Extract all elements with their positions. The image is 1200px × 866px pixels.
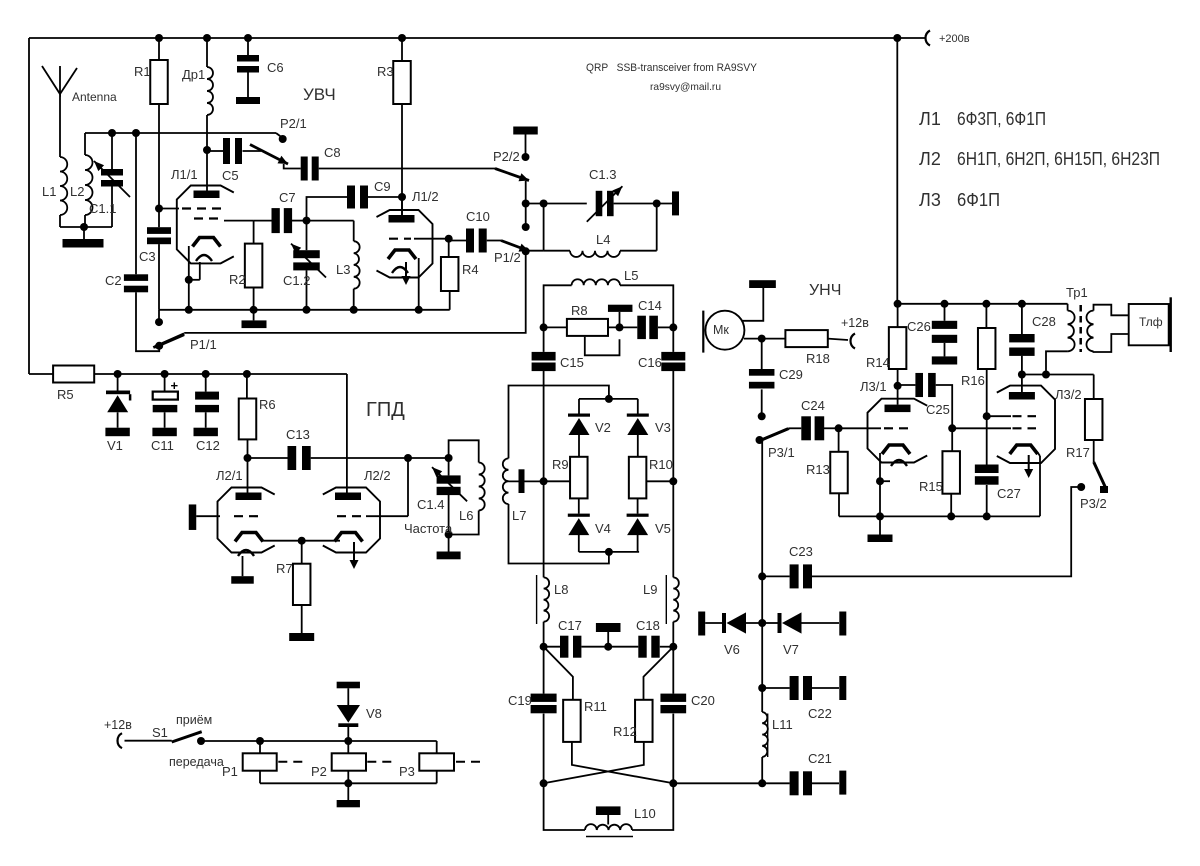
svg-text:L6: L6	[459, 508, 473, 523]
svg-text:Л3/1: Л3/1	[860, 379, 887, 394]
ground Mk	[749, 280, 776, 288]
relay coil P1	[259, 741, 261, 753]
tube U L1/2 envelope	[377, 210, 433, 278]
capacitor C9	[347, 186, 355, 209]
relay contact P2/2	[525, 135, 527, 158]
svg-text:R6: R6	[259, 397, 276, 412]
inductor L8	[543, 481, 545, 577]
inductor L5	[544, 285, 572, 327]
svg-text:V5: V5	[655, 521, 671, 536]
resistor R9	[570, 457, 588, 499]
relay contact P3/1	[756, 436, 764, 444]
diode V4	[578, 498, 580, 513]
wire Mk to R18	[744, 338, 786, 340]
svg-text:P1: P1	[222, 764, 238, 779]
node filter right	[669, 323, 677, 331]
wire relay return	[260, 782, 437, 784]
anode L3/2	[1009, 392, 1035, 400]
svg-text:C19: C19	[508, 693, 532, 708]
svg-text:R15: R15	[919, 479, 943, 494]
svg-text:P3: P3	[399, 764, 415, 779]
svg-text:R2: R2	[229, 272, 246, 287]
capacitor C17	[544, 646, 560, 648]
svg-text:V6: V6	[724, 642, 740, 657]
svg-text:ГПД: ГПД	[366, 399, 405, 421]
svg-text:C29: C29	[779, 367, 803, 382]
svg-text:V3: V3	[655, 420, 671, 435]
svg-text:S1: S1	[152, 725, 168, 740]
wire carrier right	[647, 480, 674, 482]
grid L2/1	[234, 515, 261, 517]
wire diode top rail	[579, 398, 638, 400]
svg-text:C2: C2	[105, 273, 122, 288]
svg-text:L2: L2	[70, 184, 84, 199]
tube U L3/1 envelope	[868, 399, 928, 463]
relay contact P3/2	[1094, 462, 1106, 488]
capacitor C7	[254, 220, 272, 222]
core L9	[665, 575, 667, 624]
wire anode node	[1022, 374, 1094, 376]
ground L10	[596, 806, 621, 815]
resistor R13	[838, 428, 840, 452]
ground C1.4	[448, 535, 450, 552]
svg-text:R3: R3	[377, 64, 394, 79]
heater ground L2/1	[242, 556, 244, 576]
svg-text:P2: P2	[311, 764, 327, 779]
svg-text:Л1: Л1	[919, 109, 941, 129]
capacitor C14	[637, 316, 646, 339]
diode V8	[337, 682, 360, 689]
svg-text:C27: C27	[997, 486, 1021, 501]
relay contact P2/1	[279, 135, 287, 143]
core L8	[536, 575, 538, 624]
switch S1	[172, 732, 202, 742]
node C7-C9 junction	[303, 217, 311, 225]
wire det output	[673, 782, 762, 784]
wire tank top right	[614, 203, 672, 205]
wire left border	[28, 38, 30, 374]
tube U L3/2 envelope	[997, 386, 1055, 463]
svg-text:P1/2: P1/2	[494, 250, 521, 265]
resistor R11	[544, 647, 573, 700]
svg-text:C9: C9	[374, 179, 391, 194]
wire diode bottom rail	[579, 551, 639, 553]
svg-text:Частота: Частота	[404, 521, 453, 536]
svg-text:V2: V2	[595, 420, 611, 435]
transformer Tr1 primary	[1067, 304, 1069, 311]
svg-text:P3/2: P3/2	[1080, 496, 1107, 511]
svg-text:Мк: Мк	[713, 323, 729, 337]
capacitor C22	[762, 687, 789, 689]
capacitor C8	[301, 157, 308, 181]
wire C23 to P3/2	[812, 487, 1081, 576]
capacitor C28	[1021, 304, 1023, 334]
grid2 L1/1	[194, 217, 221, 219]
wire UVCh cathode rail	[159, 309, 450, 311]
wire tank top	[526, 203, 587, 205]
svg-text:+12в: +12в	[841, 316, 869, 330]
resistor R4	[448, 239, 450, 257]
resistor R17	[1093, 375, 1095, 400]
svg-text:C1.4: C1.4	[417, 497, 444, 512]
svg-text:C10: C10	[466, 209, 490, 224]
svg-text:C6: C6	[267, 60, 284, 75]
capacitor C5	[207, 150, 223, 152]
inductor L6	[449, 440, 479, 462]
ground C6	[236, 97, 260, 104]
svg-text:V4: V4	[595, 521, 611, 536]
capacitor C1.4	[448, 458, 450, 475]
diode V7	[762, 622, 777, 624]
node stub below C3	[158, 310, 160, 322]
resistor R8	[544, 326, 567, 328]
svg-text:R4: R4	[462, 262, 479, 277]
wire +200V drop to AF stage	[896, 38, 898, 304]
wire bus to anode L2/2	[346, 374, 348, 493]
svg-text:R13: R13	[806, 462, 830, 477]
inductor L10	[544, 783, 585, 830]
capacitor C27	[975, 465, 999, 474]
wire input tank ground	[60, 226, 112, 228]
resistor R14	[897, 304, 899, 327]
svg-text:P2/1: P2/1	[280, 116, 307, 131]
tube U L2/1 envelope	[218, 488, 275, 553]
svg-text:C13: C13	[286, 427, 310, 442]
svg-text:C8: C8	[324, 145, 341, 160]
svg-text:C17: C17	[558, 618, 582, 633]
inductor L3	[307, 220, 354, 222]
node top rail junctions	[155, 34, 163, 42]
svg-text:L8: L8	[554, 582, 568, 597]
svg-text:C16: C16	[638, 355, 662, 370]
terminal bar tank	[672, 191, 679, 215]
svg-text:Л2/2: Л2/2	[364, 468, 391, 483]
svg-text:R17: R17	[1066, 445, 1090, 460]
ground input tank	[83, 227, 85, 239]
cathode L1/2	[388, 250, 416, 259]
wire carrier left	[544, 480, 570, 482]
svg-text:P2/2: P2/2	[493, 149, 520, 164]
svg-text:C5: C5	[222, 168, 239, 183]
diode V2	[578, 399, 580, 414]
svg-text:R14: R14	[866, 355, 890, 370]
svg-text:L1: L1	[42, 184, 56, 199]
svg-text:C12: C12	[196, 438, 220, 453]
wire antenna bus	[85, 132, 276, 134]
capacitor C23	[762, 575, 789, 577]
wire VFO supply bus	[94, 373, 347, 375]
svg-text:Л2: Л2	[919, 149, 941, 169]
capacitor C16	[672, 327, 674, 352]
svg-text:Л2/1: Л2/1	[216, 468, 243, 483]
capacitor C3	[147, 227, 171, 234]
svg-text:V8: V8	[366, 706, 382, 721]
relay coil P2	[347, 741, 349, 753]
node filter mid	[604, 643, 612, 651]
phones Tlf	[1129, 304, 1169, 345]
wire cathode link	[263, 540, 341, 542]
capacitor C10	[449, 240, 466, 242]
heater arrow L2/2	[353, 542, 355, 567]
svg-text:R7: R7	[276, 561, 293, 576]
diode V3	[637, 399, 639, 414]
wire P2/2 column	[525, 181, 527, 227]
resistor R2	[253, 221, 255, 244]
svg-text:P1/1: P1/1	[190, 337, 217, 352]
node C17 left	[540, 643, 548, 651]
resistor R10	[629, 457, 647, 499]
core L7	[519, 469, 525, 493]
capacitor C11	[164, 374, 166, 392]
capacitor C6	[247, 38, 249, 55]
terminal +12v AF	[851, 334, 856, 349]
tube U L2/2 envelope	[323, 488, 380, 553]
wire grid1 L3/2	[987, 415, 1011, 417]
terminal bar C22	[839, 676, 846, 700]
svg-text:Л3: Л3	[919, 190, 941, 210]
wire carrier injection	[509, 504, 609, 564]
svg-text:R8: R8	[571, 303, 588, 318]
node carrier left	[540, 477, 548, 485]
cathode L3/2	[1010, 445, 1038, 454]
capacitor C13	[248, 457, 288, 459]
transformer Tr1 core	[1079, 305, 1082, 352]
svg-text:6Ф3П, 6Ф1П: 6Ф3П, 6Ф1П	[957, 109, 1046, 129]
anode L1/2	[389, 215, 415, 223]
svg-text:Тр1: Тр1	[1066, 285, 1088, 300]
grid1 L1/1	[159, 208, 179, 210]
wire R3 to anode	[401, 104, 403, 215]
cathode L1/1	[193, 238, 221, 247]
inductor L1	[60, 157, 67, 215]
wire C9 branch	[307, 197, 348, 221]
svg-text:+12в: +12в	[104, 718, 132, 732]
core L10	[586, 836, 633, 838]
capacitor C1.1	[111, 133, 113, 169]
svg-text:R10: R10	[649, 457, 673, 472]
heater arrow L3/2	[1028, 455, 1030, 476]
wire C8 to P2/2	[319, 168, 495, 170]
svg-text:V1: V1	[107, 438, 123, 453]
svg-text:C20: C20	[691, 693, 715, 708]
grid L3/1	[839, 427, 881, 429]
capacitor C18	[608, 646, 638, 648]
capacitor C15	[543, 327, 545, 352]
choke Dr1	[206, 38, 208, 67]
svg-text:R1: R1	[134, 64, 151, 79]
resistor R6	[246, 374, 248, 399]
svg-text:Л3/2: Л3/2	[1055, 387, 1082, 402]
svg-text:L7: L7	[512, 508, 526, 523]
inductor L7	[503, 458, 509, 504]
svg-text:C1.2: C1.2	[283, 273, 310, 288]
anode L1/1	[194, 191, 220, 199]
svg-text:УНЧ: УНЧ	[809, 282, 841, 299]
terminal bar V7	[839, 612, 846, 636]
ground cathode rail AF	[879, 516, 881, 534]
wire R1 to grid	[158, 104, 160, 227]
svg-text:R12: R12	[613, 724, 637, 739]
node C18 right	[669, 643, 677, 651]
anode L3/1	[885, 405, 911, 413]
svg-text:R18: R18	[806, 351, 830, 366]
grid L1/2	[389, 238, 411, 240]
svg-text:C7: C7	[279, 190, 296, 205]
wire relay bus	[201, 740, 437, 742]
inductor L11	[761, 757, 763, 783]
relay contact P1/2	[501, 241, 529, 252]
svg-text:Тлф: Тлф	[1139, 315, 1163, 329]
svg-text:L4: L4	[596, 232, 610, 247]
resistor R3	[401, 38, 403, 61]
wire +200V top rail	[29, 37, 925, 39]
svg-text:P3/1: P3/1	[768, 445, 795, 460]
svg-text:V7: V7	[783, 642, 799, 657]
capacitor C2	[135, 133, 137, 274]
wire grid2 L3/2	[952, 427, 1011, 429]
resistor R7	[301, 541, 303, 564]
svg-text:L5: L5	[624, 268, 638, 283]
svg-text:C18: C18	[636, 618, 660, 633]
cathode L2/2	[335, 533, 363, 542]
resistor R15	[951, 428, 953, 451]
wire C2 to P1/1	[136, 292, 159, 351]
svg-text:C24: C24	[801, 398, 825, 413]
node out right	[669, 779, 677, 787]
microphone Mk	[705, 311, 744, 350]
transformer Tr1 secondary	[1086, 311, 1093, 352]
svg-text:L3: L3	[336, 262, 350, 277]
node out left	[540, 779, 548, 787]
svg-text:Л1/2: Л1/2	[412, 189, 439, 204]
ground R8-C14	[608, 305, 633, 312]
wire +12v to S1	[125, 740, 172, 742]
node filter left	[540, 323, 548, 331]
wire C5 to P2/1	[243, 150, 262, 152]
capacitor C29	[761, 339, 763, 369]
svg-text:R5: R5	[57, 387, 74, 402]
ground UVCh rail	[253, 310, 255, 321]
terminal bar V6	[698, 612, 705, 636]
capacitor C1.2	[306, 221, 308, 251]
core L11	[767, 714, 769, 758]
svg-text:C28: C28	[1032, 314, 1056, 329]
terminal +200v	[926, 31, 931, 46]
wire AF supply rail	[897, 303, 1067, 305]
svg-text:C23: C23	[789, 544, 813, 559]
relay coil P3	[436, 741, 438, 753]
anode L2/2	[335, 493, 361, 501]
node R15 top	[948, 424, 956, 432]
ground P2/2	[513, 127, 538, 135]
svg-text:приём: приём	[176, 713, 212, 727]
terminal bar C21	[839, 771, 846, 795]
svg-text:C3: C3	[139, 249, 156, 264]
relay contact P1/1	[155, 342, 163, 350]
capacitor C20	[672, 647, 674, 694]
diode V5	[637, 498, 639, 513]
svg-text:УВЧ: УВЧ	[303, 85, 336, 104]
antenna	[42, 66, 60, 94]
svg-text:Л1/1: Л1/1	[171, 167, 198, 182]
diode V1 zener	[117, 374, 119, 391]
resistor R18	[785, 330, 827, 347]
capacitor C25	[898, 384, 916, 386]
svg-text:QRP SSB-transceiver from RA9: QRP SSB-transceiver from RA9SVY	[586, 62, 758, 74]
svg-text:C14: C14	[638, 298, 662, 313]
wire column to C23	[761, 576, 763, 623]
svg-text:ra9svy@mail.ru: ra9svy@mail.ru	[650, 81, 721, 93]
inductor L4	[543, 204, 545, 251]
svg-text:6Н1П, 6Н2П, 6Н15П, 6Н23П: 6Н1П, 6Н2П, 6Н15П, 6Н23П	[957, 149, 1160, 169]
wire BFO column	[761, 623, 763, 688]
inductor L9	[672, 481, 674, 577]
svg-text:L11: L11	[772, 717, 793, 732]
tube U L1/1 envelope	[177, 186, 234, 264]
svg-text:C1.3: C1.3	[589, 167, 616, 182]
terminal +12v	[118, 733, 122, 748]
svg-text:передача: передача	[169, 755, 224, 769]
svg-text:C11: C11	[151, 438, 174, 453]
wire P3/1 down	[761, 441, 763, 576]
wire P2/1 to C8	[284, 164, 301, 169]
wire cathode rail AF	[839, 515, 1040, 517]
wire mixer input	[509, 386, 609, 459]
svg-text:C15: C15	[560, 355, 584, 370]
svg-text:L10: L10	[634, 806, 656, 821]
capacitor C12	[205, 374, 207, 392]
svg-text:C21: C21	[808, 751, 832, 766]
anode L2/1	[236, 493, 262, 501]
svg-text:C1.1: C1.1	[89, 201, 116, 216]
capacitor C21	[762, 782, 789, 784]
capacitor C24	[789, 427, 801, 429]
svg-text:+200в: +200в	[939, 33, 970, 45]
capacitor C26	[944, 304, 946, 321]
grid L2/2	[337, 515, 361, 517]
cathode L3/1	[882, 445, 910, 454]
resistor R1	[158, 38, 160, 60]
node C22	[758, 684, 766, 692]
svg-text:R9: R9	[552, 457, 569, 472]
resistor R12	[644, 647, 674, 700]
capacitor C19	[543, 647, 545, 694]
svg-text:Antenna: Antenna	[72, 90, 117, 104]
cathode L2/1	[235, 533, 263, 542]
resistor R5	[29, 373, 53, 375]
svg-text:C25: C25	[926, 402, 950, 417]
svg-text:R11: R11	[584, 699, 607, 714]
svg-text:L9: L9	[643, 582, 657, 597]
diode V6	[722, 613, 726, 633]
capacitor C1.3	[596, 191, 603, 216]
svg-text:Др1: Др1	[182, 67, 205, 82]
wire P1/1 to P1/2	[184, 251, 526, 333]
svg-text:R16: R16	[961, 373, 985, 388]
R8 wiper	[585, 337, 620, 356]
svg-text:C26: C26	[907, 319, 931, 334]
heater arrow L1/2	[392, 267, 408, 273]
ground filter mid	[596, 623, 621, 632]
resistor R16	[985, 304, 987, 328]
inductor L2	[84, 133, 86, 155]
grid terminal L2/1	[189, 504, 197, 530]
svg-text:6Ф1П: 6Ф1П	[957, 190, 1000, 210]
svg-text:C22: C22	[808, 706, 832, 721]
ground relay return	[347, 783, 349, 800]
